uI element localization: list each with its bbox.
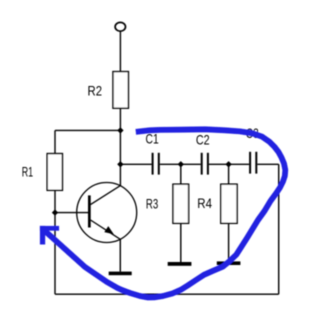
wire terminal to R2 (119, 31, 121, 71)
resistor R2 (113, 72, 128, 109)
node A (R2 bottom junction) (117, 127, 123, 133)
node B (base junction) (52, 209, 58, 215)
terminal (supply) (115, 22, 125, 31)
wire node D to R3 (180, 164, 182, 184)
wire node C to C1 (120, 163, 151, 165)
resistor R3 (173, 184, 189, 223)
svg-text:R2: R2 (88, 84, 103, 99)
ground (R3) (168, 262, 192, 266)
arrowhead of blue annotation (40, 226, 59, 245)
resistor R1 (47, 154, 62, 191)
wire base (55, 212, 88, 214)
wire R1 bottom to bottom rail (54, 190, 56, 294)
wire node A to R1 (horizontal) (55, 129, 120, 131)
wire R3 to ground (180, 223, 182, 262)
svg-text:R1: R1 (22, 165, 33, 180)
capacitor C3 (250, 152, 256, 174)
svg-text:C1: C1 (146, 132, 159, 147)
svg-text:C2: C2 (196, 132, 210, 147)
ground (emitter) (109, 272, 132, 276)
transistor Q1 (77, 183, 137, 243)
capacitor C2 (202, 153, 208, 175)
wire C3 to right rail (257, 163, 278, 165)
node C (collector/cap chain junction) (117, 161, 123, 167)
wire node E to R4 (228, 164, 230, 184)
wire bottom rail (55, 293, 279, 295)
svg-text:R4: R4 (197, 196, 212, 211)
wire R2 to collector (119, 108, 121, 186)
resistor R4 (221, 184, 237, 223)
wire C1 to C2 (160, 163, 201, 165)
wire C2 to C3 (209, 163, 249, 165)
wire emitter down (119, 239, 121, 272)
svg-text:R3: R3 (146, 196, 159, 211)
wire right rail (278, 164, 280, 294)
feedback annotation (blue curve) (44, 129, 286, 297)
wire down to R1 top (54, 130, 56, 153)
node D (R3 junction) (178, 161, 184, 167)
ground (R4) (217, 261, 241, 265)
node E (R4 junction) (225, 161, 231, 167)
wire R4 to ground (228, 223, 230, 261)
capacitor C1 (153, 153, 159, 175)
